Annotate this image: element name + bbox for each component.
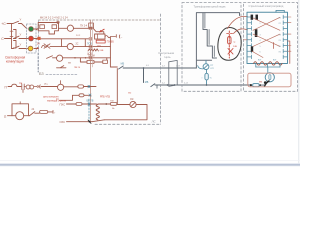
fork row labels	[254, 17, 281, 53]
relay coil 2C-2	[67, 44, 73, 50]
relay coil 2C-1	[67, 25, 73, 31]
svg-text:ОК: ОК	[130, 98, 134, 101]
transformer box outline	[196, 13, 239, 68]
wire right side loop	[104, 105, 147, 120]
annotation dashed wire	[228, 31, 230, 58]
wire OHS row	[60, 120, 66, 124]
dashed boundary vertical x38	[38, 21, 40, 73]
label YuT2	[273, 59, 277, 61]
svg-text:1: 1	[254, 17, 255, 19]
svg-text:4-3: 4-3	[162, 66, 165, 68]
junction	[174, 84, 176, 86]
svg-text:Трансформаторный ящик: Трансформаторный ящик	[194, 5, 227, 9]
switch drive dashed box	[244, 3, 298, 92]
svg-text:РПБ ЧПЗ: РПБ ЧПЗ	[100, 97, 111, 99]
brush contact left	[264, 81, 267, 84]
svg-text:ОП: ОП	[210, 68, 214, 70]
fuse FU2	[228, 37, 231, 45]
wire cross X2	[253, 34, 280, 46]
contact wavy S	[42, 45, 48, 48]
wire long row2	[41, 38, 89, 40]
lamp box dashed	[27, 24, 37, 53]
lamp green	[29, 27, 34, 32]
svg-text:ЛС: ЛС	[151, 120, 157, 124]
contact to green lamp	[13, 21, 19, 23]
label transformer cabinet	[194, 5, 227, 9]
svg-text:т: т	[202, 78, 203, 80]
fuse FU1	[206, 70, 208, 74]
svg-text:Л2: Л2	[279, 23, 281, 25]
arrow annotation	[100, 29, 105, 32]
svg-text:4-3: 4-3	[146, 65, 149, 67]
resistor pill PHS	[76, 103, 82, 106]
svg-text:6: 6	[260, 52, 261, 54]
resistor pill V	[40, 110, 48, 113]
resistor R2	[52, 25, 57, 29]
svg-text:У: У	[20, 43, 22, 47]
contact group bracket 1	[14, 30, 17, 39]
junction dot	[105, 103, 107, 105]
terminal bracket	[118, 35, 121, 38]
relay coil MS	[57, 55, 63, 61]
annotation box red	[96, 40, 105, 43]
svg-text:МК 24 2-2 2-4 М2 2-1 24: МК 24 2-2 2-4 М2 2-1 24	[40, 16, 68, 19]
wire meter drop	[205, 60, 207, 63]
svg-text:2: 2	[260, 23, 261, 25]
red labels row	[43, 97, 59, 99]
wire drop left	[60, 95, 73, 100]
wire P row	[5, 85, 8, 89]
node +C label	[1, 22, 6, 26]
label switch drive	[249, 4, 284, 8]
terminal block mark	[37, 37, 40, 40]
wire yellow out	[34, 48, 39, 50]
right edge line	[297, 0, 300, 164]
wire down to MB row	[110, 37, 117, 67]
svg-text:Л3: Л3	[279, 34, 281, 36]
svg-text:ВМ: ВМ	[259, 82, 262, 84]
bottom divider	[0, 159, 300, 162]
wire stepping down	[93, 28, 104, 34]
node B3 label	[39, 72, 44, 76]
svg-text:4-13: 4-13	[176, 66, 180, 68]
wire relay to junction	[74, 27, 94, 29]
branch row 2	[73, 94, 79, 96]
wire loop risers	[62, 39, 86, 47]
contact to yellow lamp	[12, 46, 20, 48]
resistor loop V	[12, 104, 29, 116]
junction ring	[57, 21, 59, 23]
wire motor drop	[267, 67, 269, 73]
wire line 85	[155, 84, 251, 86]
winding W1	[88, 49, 98, 51]
svg-text:Стрелочный электропривод: Стрелочный электропривод	[249, 4, 284, 8]
contact X	[44, 44, 50, 49]
svg-text:У: У	[20, 33, 22, 37]
svg-text:МБ: МБ	[145, 81, 149, 84]
label control circuit	[159, 51, 175, 55]
svg-text:Л4: Л4	[279, 40, 281, 42]
resistor R1	[40, 25, 45, 29]
wire to relay 2C	[59, 27, 68, 29]
relay coil P	[58, 84, 64, 90]
lamp red	[29, 36, 34, 41]
svg-text:Цепь: Цепь	[165, 55, 172, 59]
svg-text:цепь контроля: цепь контроля	[43, 97, 59, 99]
resistor pill	[78, 85, 84, 88]
wire red curve 1	[228, 16, 248, 28]
commutator	[269, 75, 271, 80]
wire coil ticks	[256, 64, 280, 67]
winding coil A	[254, 62, 268, 65]
svg-text:ОХС: ОХС	[60, 120, 66, 124]
junction cluster	[88, 86, 90, 88]
resistor pill 768	[110, 102, 117, 105]
wire red right drop	[288, 41, 290, 64]
contact arc row MS	[47, 56, 53, 59]
wire loop lower	[80, 58, 106, 62]
svg-text:Л6: Л6	[279, 52, 281, 54]
svg-text:%: %	[210, 78, 212, 80]
junction	[143, 67, 145, 69]
wire left stub	[244, 39, 248, 41]
contact group bracket 2	[14, 41, 17, 49]
connector column	[89, 21, 91, 123]
relay block V	[4, 115, 7, 119]
wire from +C	[7, 23, 13, 25]
contact black 1	[251, 15, 254, 20]
brush arc	[265, 81, 269, 86]
wire red out	[34, 38, 39, 40]
winding vertical	[96, 105, 99, 120]
highlight rounded box	[248, 73, 291, 87]
terminal tick	[115, 35, 117, 38]
top tiny labels	[40, 16, 68, 19]
svg-text:ПУ 2-4: ПУ 2-4	[80, 26, 88, 28]
terminal ticks lamp rows	[36, 28, 38, 49]
left contact forks	[247, 15, 252, 59]
svg-text:коммутация: коммутация	[6, 60, 24, 64]
svg-text:3: 3	[260, 34, 261, 36]
connector block	[89, 23, 94, 28]
contact MB	[121, 63, 125, 66]
node C label	[1, 37, 4, 41]
fuse FU3	[253, 84, 260, 87]
svg-text:5: 5	[260, 46, 261, 48]
dashed line bottom left	[95, 123, 160, 125]
contact MB2	[145, 81, 149, 84]
label OXCM	[88, 56, 95, 58]
annotation blob	[218, 28, 241, 61]
wire row MS	[63, 57, 111, 59]
svg-text:Л1: Л1	[279, 17, 281, 19]
junction	[167, 84, 169, 86]
top dashed bus	[39, 19, 161, 21]
resistor R3	[87, 61, 94, 64]
svg-text:У: У	[20, 18, 22, 22]
svg-text:4: 4	[260, 40, 261, 42]
resistor R3b	[103, 60, 108, 63]
teal dashed vertical	[88, 99, 90, 122]
svg-text:перевода стрелки: перевода стрелки	[47, 100, 67, 102]
label signal commutation	[5, 56, 26, 60]
svg-text:4-4: 4-4	[162, 83, 165, 85]
label LS	[151, 120, 157, 124]
wire cross X1	[253, 17, 280, 30]
wire C row	[5, 38, 12, 40]
svg-text:2С: 2С	[76, 44, 79, 46]
label YuT1	[258, 59, 262, 61]
contact black 2	[256, 15, 259, 20]
svg-text:4-14: 4-14	[184, 83, 188, 85]
svg-text:БВ ПВ: БВ ПВ	[87, 100, 94, 102]
wire diag low	[252, 51, 263, 57]
contact bridge	[12, 84, 18, 86]
wire line 68	[123, 67, 196, 69]
wire vertical bus	[11, 24, 13, 49]
svg-text:+С: +С	[1, 22, 6, 26]
svg-text:ПВ 24: ПВ 24	[74, 67, 81, 69]
wire green out	[34, 28, 39, 30]
lamp OK	[130, 101, 136, 107]
transformer cabinet dashed box	[182, 3, 241, 92]
wire relay2 out	[73, 46, 110, 48]
annotation arrow	[228, 49, 233, 55]
right contact forks	[283, 15, 287, 59]
winding coil B	[269, 62, 283, 65]
contact black 4	[251, 46, 253, 52]
wire red curve 2	[234, 29, 248, 34]
wire to relay 2C-2	[50, 46, 67, 48]
stub down	[156, 85, 158, 88]
svg-text:ПХС: ПХС	[60, 103, 66, 107]
relay coil V	[16, 112, 24, 120]
motor contact box	[247, 12, 288, 63]
tiny text column	[87, 43, 92, 45]
wire branch down	[143, 68, 145, 83]
wire right stubs	[288, 17, 292, 51]
wire PHS row	[60, 103, 66, 107]
relay box PU	[95, 34, 105, 39]
svg-text:Светофорная: Светофорная	[5, 56, 26, 60]
dashed boundary left vertical	[37, 53, 39, 72]
resistor pill2	[79, 94, 84, 97]
wire drop to PHS row	[116, 69, 118, 104]
svg-text:г: г	[55, 112, 56, 115]
wire stub row	[57, 66, 67, 68]
coupling circles	[26, 85, 30, 89]
contact block K1	[38, 23, 58, 35]
motor M	[265, 73, 274, 82]
wire coil bus	[256, 66, 280, 68]
contact to red lamp	[14, 36, 20, 38]
svg-text:МБ: МБ	[121, 63, 125, 66]
dashed line cable left	[159, 14, 161, 124]
contact black 3	[255, 29, 258, 37]
meter circle	[203, 64, 209, 70]
svg-text:24В: 24В	[233, 46, 237, 48]
contact 24	[30, 112, 35, 116]
dashed boundary B3 horizontal	[46, 74, 77, 76]
cable sleeve	[169, 60, 177, 86]
svg-text:24В: 24В	[100, 50, 104, 52]
svg-text:Л5: Л5	[279, 46, 281, 48]
plug contact	[22, 84, 24, 93]
terminal pair	[37, 86, 39, 88]
contact wavy	[105, 36, 111, 38]
svg-text:БЗ: БЗ	[39, 72, 44, 76]
wire red inner	[273, 43, 275, 49]
wire number labels	[146, 65, 188, 84]
transformer inner steps	[205, 13, 214, 57]
lamp yellow	[28, 46, 33, 51]
svg-text:Контрольная: Контрольная	[159, 51, 175, 55]
